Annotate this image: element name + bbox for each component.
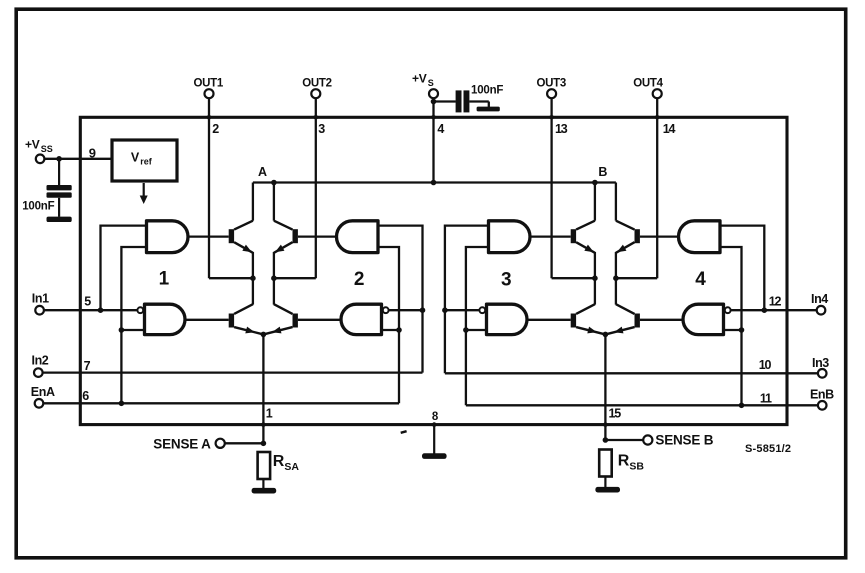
- svg-text:10: 10: [759, 358, 772, 372]
- svg-text:In2: In2: [32, 354, 49, 368]
- svg-text:1: 1: [159, 269, 170, 290]
- svg-text:SENSE B: SENSE B: [655, 432, 713, 447]
- svg-text:8: 8: [432, 411, 439, 423]
- svg-text:100nF: 100nF: [22, 201, 54, 213]
- svg-text:3: 3: [501, 269, 512, 290]
- svg-text:SS: SS: [41, 144, 53, 154]
- svg-text:+V: +V: [25, 137, 40, 151]
- svg-text:9: 9: [89, 145, 96, 160]
- svg-text:OUT3: OUT3: [536, 78, 565, 90]
- svg-text:+V: +V: [412, 72, 427, 86]
- svg-text:13: 13: [555, 122, 568, 136]
- svg-text:ref: ref: [140, 157, 153, 167]
- svg-text:R: R: [273, 453, 285, 470]
- svg-text:S: S: [428, 78, 434, 88]
- svg-text:4: 4: [695, 269, 706, 290]
- svg-text:5: 5: [84, 295, 91, 309]
- svg-text:12: 12: [769, 295, 782, 309]
- svg-text:In4: In4: [811, 292, 828, 306]
- svg-text:4: 4: [437, 122, 444, 136]
- svg-text:EnB: EnB: [810, 388, 834, 402]
- svg-text:7: 7: [84, 359, 91, 373]
- svg-text:In1: In1: [32, 291, 49, 305]
- svg-text:1: 1: [266, 407, 273, 421]
- svg-text:2: 2: [354, 269, 365, 290]
- svg-text:S-5851/2: S-5851/2: [745, 443, 791, 455]
- svg-text:A: A: [258, 165, 267, 179]
- svg-text:14: 14: [663, 122, 676, 136]
- svg-text:15: 15: [609, 406, 622, 420]
- svg-text:OUT4: OUT4: [633, 78, 663, 90]
- svg-text:R: R: [618, 453, 630, 470]
- svg-text:SB: SB: [629, 461, 644, 473]
- svg-text:V: V: [131, 151, 140, 165]
- svg-text:11: 11: [760, 391, 772, 405]
- svg-text:SENSE A: SENSE A: [153, 436, 211, 451]
- svg-text:OUT1: OUT1: [193, 78, 223, 90]
- svg-text:SA: SA: [284, 461, 299, 473]
- svg-text:EnA: EnA: [31, 385, 55, 399]
- svg-text:In3: In3: [812, 356, 829, 370]
- svg-text:100nF: 100nF: [471, 85, 503, 97]
- svg-text:OUT2: OUT2: [302, 78, 331, 90]
- svg-text:6: 6: [82, 389, 89, 403]
- svg-text:B: B: [598, 165, 607, 179]
